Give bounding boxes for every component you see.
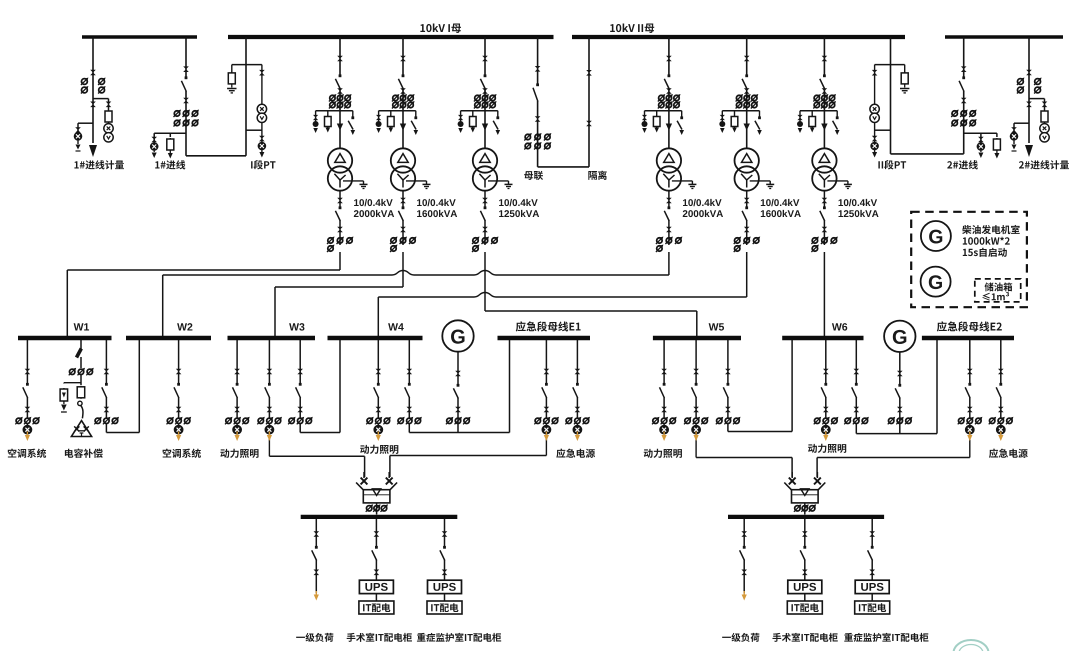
- feeder T5: stem from 10kV bus: [746, 37, 748, 75]
- feeder T1: drawout contact bottom: [337, 88, 343, 94]
- feeder T3: protection branch: [461, 110, 498, 112]
- label yingji dianyuan E2: [989, 449, 998, 458]
- II段PT: fuse with ground: [904, 72, 906, 85]
- ATS1: output CT row: [376, 503, 378, 515]
- label dianrong buchang: [65, 449, 73, 458]
- wire: T2 LV to W3 riser: [402, 252, 404, 287]
- feeder T3: stem from 10kV bus: [484, 37, 486, 75]
- fuel tank dashed box: [975, 279, 1021, 302]
- feeder T1: protection branch: [316, 110, 353, 112]
- ATS2: input isolating contacts: [791, 472, 793, 478]
- generator G1 letter: [451, 330, 465, 344]
- feeder 1#进线: drawout contact top: [183, 66, 189, 72]
- tie feeder W1 to W2 tie: [105, 340, 107, 384]
- I段PT: fuse with ground: [231, 72, 233, 85]
- wire: W5-W6 tie link: [728, 431, 792, 433]
- label T5 voltage: [761, 199, 766, 206]
- label 1#进线: [155, 161, 159, 168]
- wire: T1 LV to W1 riser: [339, 252, 341, 270]
- feeder T2: branch fuse: [390, 116, 392, 128]
- feeder T6: branch disconnect: [836, 116, 839, 119]
- label kongtiao xitong W1: [8, 449, 17, 458]
- tie feeder W3 to W4 tie: [299, 340, 301, 384]
- bus tie (mulian) feeder: [537, 37, 539, 85]
- label T3 voltage: [499, 199, 504, 206]
- feeder T6: drawout contact bottom: [822, 88, 828, 94]
- feeder T1: drawout contact top: [337, 56, 343, 62]
- feeder T6: LV CT row: [812, 238, 817, 243]
- feeder T3: CT group 2x3: [475, 95, 480, 100]
- feeder 2#进线计量: left metering branch: [1014, 122, 1029, 124]
- feeder T2: CT group 2x3: [393, 95, 398, 100]
- generator G2 connection chain: [899, 352, 901, 384]
- feeder W3 to ATS1 (with meter): [268, 340, 270, 384]
- label diesel generator room: [962, 225, 971, 234]
- feeder T6: surge arrester: [797, 115, 802, 120]
- feeder T6: protection branch: [800, 110, 837, 112]
- feeder 1#进线计量: drawout contact: [90, 70, 96, 76]
- feeder T2: main line arrow: [400, 124, 406, 131]
- feeder 2#进线: CT group 2x3: [952, 111, 957, 116]
- label T1 voltage: [354, 199, 359, 206]
- capacitor main fuse: [80, 386, 82, 399]
- transformer T6: neutral ground: [827, 180, 848, 182]
- wire: T3 LV to W5 riser: [484, 252, 486, 311]
- label first-class load right: [722, 637, 731, 638]
- feeder T5: main line arrow: [744, 124, 750, 131]
- wire: T5 LV to W4 riser (hops over T3 vertical): [746, 252, 748, 297]
- label T6 voltage: [839, 199, 844, 206]
- feeder T3: breaker: [484, 74, 487, 77]
- wire: E2 feeder to ATS2 right input: [817, 457, 970, 459]
- feeder ICU UPS 2: [871, 519, 873, 547]
- feeder E2 to ATS2 (with meter): [969, 340, 971, 384]
- label yingji dianyuan E1: [556, 449, 565, 458]
- feeder T5: drawout contact top: [744, 56, 750, 62]
- label 10kV II bus: [610, 24, 615, 32]
- wire: W3-W4 tie link: [300, 432, 340, 434]
- feeder 1#进线: branch fuse: [169, 138, 171, 151]
- feeder 2#进线: drawout contact bottom: [961, 98, 967, 104]
- bus: 10kV section I busbar: [228, 35, 554, 39]
- label E1: [516, 321, 526, 331]
- feeder 1#进线: CT group 2x3: [174, 111, 179, 116]
- feeder T2: drawout contact top: [400, 56, 406, 62]
- feeder T6: branch fuse: [811, 116, 813, 128]
- feeder T1: branch fuse: [327, 116, 329, 128]
- bus W1: [18, 336, 112, 340]
- feeder 2#进线计量: main line arrow: [1025, 145, 1033, 157]
- label operating room IT cabinet left: [347, 633, 356, 642]
- feeder W5 power lighting load: [663, 340, 665, 384]
- sub-bus IT section 2: [728, 515, 884, 519]
- feeder T6: main line arrow: [821, 124, 827, 131]
- feeder 1#进线计量: CT group 2x2: [82, 79, 88, 85]
- transformer T3: neutral ground: [488, 180, 509, 182]
- feeder T4: protection branch: [645, 110, 682, 112]
- label T5 rating: [761, 210, 766, 217]
- feeder T2: protection branch: [379, 110, 416, 112]
- ATS2: transfer switch body: [784, 483, 792, 491]
- label W3: [289, 323, 299, 330]
- wire: T6 LV direct to W6: [823, 252, 825, 336]
- feeder T3: branch disconnect: [496, 116, 499, 119]
- bus W2: [126, 336, 211, 340]
- feeder 1#进线计量: fuse: [108, 110, 110, 123]
- feeder T3: surge arrester: [458, 115, 463, 120]
- feeder T3: branch fuse: [472, 116, 474, 128]
- operating room UPS 1: UPS box: [359, 580, 393, 593]
- feeder T6: CT group 2x3: [814, 95, 819, 100]
- feeder T1: LV CT row: [328, 238, 333, 243]
- feeder T4: main line arrow: [666, 124, 672, 131]
- transformer T3 (Dyn11): [473, 148, 497, 172]
- IT distribution box label: [859, 604, 860, 611]
- wire: bus tie bottom link: [538, 166, 589, 168]
- feeder W4 power lighting load: [377, 340, 379, 384]
- I段PT: riser from bus: [245, 37, 247, 156]
- feeder W2 air-conditioning load: [178, 340, 180, 384]
- wire: W5 feeder to ATS2 left input: [696, 457, 792, 459]
- wire: T4 LV to W2 riser (hops over T2,T3 verticals): [668, 252, 670, 275]
- IT distribution box label: [791, 604, 792, 611]
- transformer T4 (Dyn11): [657, 148, 681, 172]
- IT distribution box label: [363, 604, 364, 611]
- feeder T6: drawout contact top: [822, 56, 828, 62]
- feeder 2#进线: drawout contact top: [961, 66, 967, 72]
- feeder first-class load 2: [743, 519, 745, 547]
- transformer T4: neutral ground: [672, 180, 693, 182]
- ICU UPS 1: IT distribution box: [427, 601, 462, 614]
- watermark stamp (partial, bottom right): [954, 640, 989, 651]
- feeder 2#进线计量: branch to PT fuse: [1029, 98, 1045, 100]
- feeder T3: drawout contact top: [482, 56, 488, 62]
- feeder T1: surge arrester: [313, 115, 318, 120]
- capacitor bank (delta) with ground mark: [71, 421, 91, 437]
- UPS box label: [433, 583, 440, 591]
- label dongli zhaoming W5: [644, 449, 653, 458]
- feeder T4: branch fuse: [656, 116, 658, 128]
- label 1#进线计量: [74, 161, 78, 168]
- label first-class load left: [296, 637, 305, 638]
- feeder W3 power lighting load: [236, 340, 238, 384]
- label operating room IT cabinet right: [772, 633, 781, 642]
- feeder 2#进线计量: drawout contact: [1026, 70, 1032, 76]
- feeder T5: LV CT row: [735, 238, 740, 243]
- feeder E1 to ATS1 (with meter): [545, 340, 547, 384]
- label E2: [937, 321, 947, 331]
- feeder 2#进线: breaker blade: [962, 76, 965, 79]
- label II段PT: [878, 161, 879, 168]
- feeder 2#进线计量: CT group 2x2: [1018, 79, 1024, 85]
- label fuel tank: [985, 282, 994, 291]
- feeder 1#进线计量: contacts below CT: [90, 102, 96, 108]
- label T2 rating: [417, 210, 422, 217]
- feeder E2 emergency power load: [1000, 340, 1002, 384]
- feeder T2: drawout contact bottom: [400, 88, 406, 94]
- feeder T4: CT group 2x3: [659, 95, 664, 100]
- bus W4: [328, 336, 423, 340]
- feeder T6: LV side breaker: [823, 191, 825, 208]
- feeder T3: drawout contact bottom: [482, 88, 488, 94]
- feeder T5: branch disconnect: [758, 116, 761, 119]
- feeder 1#进线计量: main line arrow: [89, 145, 97, 157]
- feeder 1#进线计量: stem from bus: [92, 37, 94, 143]
- label kongtiao xitong W2: [163, 449, 172, 458]
- wire: W6-G2-E2 tie link: [856, 433, 937, 435]
- feeder T3: LV side breaker: [484, 191, 486, 208]
- generator G1 connection chain: [457, 352, 459, 384]
- transformer T2 (Dyn11): [391, 148, 415, 172]
- feeder T2: stem from 10kV bus: [402, 37, 404, 75]
- feeder T5: LV side breaker: [746, 191, 748, 208]
- IT distribution box label: [431, 604, 432, 611]
- feeder T1: CT group 2x3: [330, 95, 335, 100]
- tie feeder W5 to W6 tie: [727, 340, 729, 384]
- bus W5: [653, 336, 741, 340]
- label T3 rating: [499, 210, 504, 217]
- feeder T5: surge arrester: [720, 115, 725, 120]
- feeder T2: breaker: [402, 74, 405, 77]
- feeder W5 to ATS2 (with meter): [695, 340, 697, 384]
- generator G1 symbol: [442, 320, 473, 351]
- feeder T4: drawout contact bottom: [666, 88, 672, 94]
- feeder W6 power lighting load: [825, 340, 827, 384]
- operating room UPS 2: IT distribution box: [787, 601, 822, 614]
- feeder 2#进线: branch fuse: [996, 138, 998, 151]
- feeder first-class load 1: [315, 519, 317, 547]
- feeder 1#进线: connection to section PT riser: [186, 155, 246, 157]
- transformer T1: neutral ground: [343, 180, 364, 182]
- bus W6: [782, 336, 863, 340]
- feeder T5: branch fuse: [734, 116, 736, 128]
- label T1 rating: [354, 210, 359, 217]
- label W4: [388, 323, 398, 330]
- feeder 1#进线: drawout contact bottom: [183, 98, 189, 104]
- ATS1: input isolating contacts: [363, 472, 365, 478]
- feeder T4: stem from 10kV bus: [668, 37, 670, 75]
- UPS box label: [794, 583, 801, 591]
- feeder ICU UPS 1: [444, 519, 446, 547]
- feeder T5: breaker: [745, 74, 748, 77]
- feeder 2#进线计量: contacts below CT: [1026, 102, 1032, 108]
- capacitor branch fuse with ground: [80, 375, 82, 386]
- diesel unit 2 G letter: [929, 275, 942, 289]
- label 2#进线计量: [1019, 161, 1024, 168]
- operating room UPS 1: IT distribution box: [359, 601, 394, 614]
- bus tie CT group: [525, 134, 530, 139]
- label 2#进线: [947, 161, 952, 168]
- feeder T5: drawout contact bottom: [744, 88, 750, 94]
- feeder T4: breaker: [668, 74, 671, 77]
- ICU UPS 2: IT distribution box: [855, 601, 890, 614]
- label dongli zhaoming W3: [220, 449, 229, 458]
- label geli: [588, 171, 597, 180]
- label T4 rating: [683, 210, 688, 217]
- label 10kV I bus: [420, 24, 425, 32]
- ATS1: transfer switch body: [356, 483, 364, 491]
- transformer T2: neutral ground: [406, 180, 427, 182]
- feeder 2#进线: stem from bus: [963, 37, 965, 77]
- feeder T1: breaker: [339, 74, 342, 77]
- wire: W4-G1-E1 tie link: [409, 432, 509, 434]
- feeder 1#进线计量: branch to PT fuse: [93, 98, 109, 100]
- label T2 voltage: [417, 199, 422, 206]
- feeder T4: drawout contact top: [666, 56, 672, 62]
- feeder T5: protection branch: [722, 110, 759, 112]
- I段PT: contact above PT: [261, 65, 263, 104]
- feeder W1 capacitor compensation: [80, 340, 82, 349]
- feeder T2: LV side breaker: [402, 191, 404, 208]
- tie feeder W6 to E2 tie: [855, 340, 857, 384]
- feeder 1#进线计量: PT (2 windings): [104, 124, 113, 133]
- operating room UPS 2: UPS box: [788, 580, 822, 593]
- feeder T1: main line arrow: [337, 124, 343, 131]
- UPS box label: [365, 583, 372, 591]
- feeder 1#进线: branch with arrester and fuse: [154, 132, 186, 134]
- generator G2 letter: [893, 330, 907, 344]
- feeder T6: breaker: [823, 74, 826, 77]
- isolator (geli) link to 10kV II bus: [588, 37, 590, 167]
- feeder T5: CT group 2x3: [736, 95, 741, 100]
- feeder E1 emergency power load: [576, 340, 578, 384]
- feeder T2: LV CT row: [391, 238, 396, 243]
- II段PT: voltage transformer: [870, 104, 879, 113]
- label T6 rating: [839, 210, 844, 217]
- feeder 2#进线: connection to section PT riser: [891, 153, 964, 155]
- generator G2 symbol: [884, 321, 915, 352]
- generator symbol in room (unit 1): [921, 221, 951, 251]
- ICU UPS 2: UPS box: [855, 580, 889, 593]
- feeder 2#进线计量: stem from bus: [1028, 37, 1030, 143]
- capacitor contactor: [78, 401, 82, 405]
- I段PT: upper branch: [232, 64, 262, 66]
- II段PT: upper branch: [875, 64, 905, 66]
- bus E1 (emergency section 1): [498, 336, 591, 340]
- feeder 1#进线: stem from bus: [185, 37, 187, 77]
- label I段PT: [251, 161, 252, 168]
- feeder T4: surge arrester: [642, 115, 647, 120]
- diesel generator room dashed box: [911, 212, 1027, 307]
- feeder T6: stem from 10kV bus: [823, 37, 825, 75]
- tie feeder W4 to E1 tie: [408, 340, 410, 384]
- label mulian: [524, 171, 533, 180]
- bus: 10kV section II busbar: [572, 35, 905, 39]
- ICU UPS 1: UPS box: [428, 580, 462, 593]
- bus: left incoming section bus: [82, 35, 197, 39]
- wire: E1 feeder to ATS1 right input: [390, 455, 547, 457]
- feeder 2#进线计量: PT (2 windings): [1040, 124, 1049, 133]
- feeder T4: LV CT row: [657, 238, 662, 243]
- label W2: [177, 323, 187, 330]
- transformer T5: neutral ground: [750, 180, 771, 182]
- II段PT: lower branch with metering: [874, 122, 876, 152]
- wire: W3 feeder to ATS1 left input: [269, 455, 364, 457]
- generator symbol in room (unit 2): [921, 267, 951, 297]
- label W5: [709, 323, 719, 330]
- feeder operating room UPS 1: [375, 519, 377, 547]
- label ICU IT cabinet right: [844, 633, 853, 642]
- feeder T3: main line arrow: [482, 124, 488, 131]
- wire: W1-W2 tie link: [106, 432, 139, 434]
- feeder 1#进线计量: left metering branch: [78, 122, 93, 124]
- label ICU IT cabinet left: [417, 633, 426, 642]
- transformer T1 (Dyn11): [328, 148, 352, 172]
- UPS box label: [861, 583, 868, 591]
- feeder T2: branch disconnect: [414, 116, 417, 119]
- feeder 2#进线: branch with arrester and fuse: [964, 132, 997, 134]
- transformer T6 (Dyn11): [812, 148, 836, 172]
- feeder T4: LV side breaker: [668, 191, 670, 208]
- feeder operating room UPS 2: [804, 519, 806, 547]
- feeder T1: stem from 10kV bus: [339, 37, 341, 75]
- label dongli zhaoming W4: [360, 445, 369, 454]
- sub-bus IT section 1: [301, 515, 458, 519]
- transformer T5 (Dyn11): [735, 148, 759, 172]
- label W1: [74, 323, 84, 330]
- feeder W1 air-conditioning load: [26, 340, 28, 384]
- label T4 voltage: [683, 199, 688, 206]
- label W6: [832, 323, 842, 330]
- I段PT: lower branch with metering: [261, 122, 263, 152]
- feeder T4: branch disconnect: [680, 116, 683, 119]
- label dongli zhaoming W6: [808, 444, 817, 453]
- II段PT: contact above PT: [874, 65, 876, 104]
- feeder T1: branch disconnect: [351, 116, 354, 119]
- feeder 1#进线: breaker blade: [185, 76, 188, 79]
- feeder 2#进线计量: fuse: [1044, 110, 1046, 123]
- I段PT: voltage transformer: [257, 104, 266, 113]
- feeder T2: surge arrester: [376, 115, 381, 120]
- bus E2 (emergency section 2): [922, 336, 1014, 340]
- feeder T1: LV side breaker: [339, 191, 341, 208]
- ATS2: output CT row: [804, 503, 806, 515]
- bus: right incoming section bus: [945, 35, 1063, 39]
- diesel unit 1 G letter: [929, 230, 942, 244]
- bus W3: [228, 336, 316, 340]
- II段PT: riser from bus: [890, 37, 892, 154]
- feeder T3: LV CT row: [473, 238, 478, 243]
